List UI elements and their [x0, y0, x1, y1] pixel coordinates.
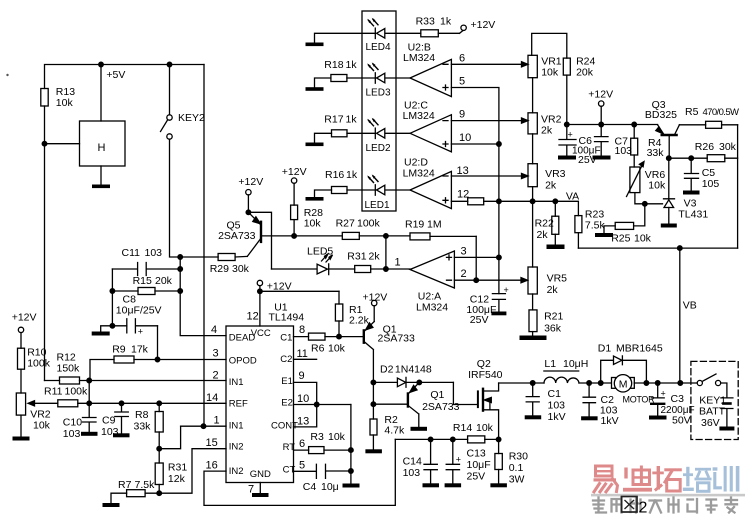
wire OPOD row — [90, 360, 226, 381]
svg-text:10k: 10k — [328, 431, 346, 443]
svg-text:L1: L1 — [544, 358, 556, 370]
svg-text:LED2: LED2 — [366, 143, 391, 154]
wire +5V long vertical to pin1 — [203, 65, 205, 427]
ground — [595, 233, 613, 237]
terminal +12V U1 — [257, 280, 262, 326]
svg-text:30k: 30k — [232, 263, 250, 275]
svg-text:3: 3 — [213, 348, 219, 360]
svg-text:9: 9 — [299, 370, 305, 382]
watermark char yi — [594, 466, 618, 492]
resistor R18 — [331, 75, 347, 82]
svg-text:100k: 100k — [357, 218, 381, 230]
svg-text:REF: REF — [229, 399, 248, 410]
capacitor C9 — [115, 403, 129, 433]
svg-text:IRF540: IRF540 — [468, 369, 503, 381]
svg-text:20k: 20k — [576, 67, 594, 79]
wire H to ground — [100, 166, 102, 185]
svg-text:3: 3 — [461, 246, 467, 258]
wire pin9 E1 — [294, 382, 317, 404]
svg-text:10k: 10k — [648, 180, 666, 192]
svg-text:+12V: +12V — [588, 89, 613, 101]
resistor R3 — [309, 447, 324, 454]
resistor R4 — [631, 125, 638, 168]
resistor R9 — [114, 356, 134, 363]
LED LED4 — [367, 18, 385, 39]
capacitor C2 — [583, 383, 595, 416]
resistor R5 — [706, 121, 738, 128]
op-amp U2:A — [410, 251, 454, 288]
svg-text:+: + — [504, 285, 509, 295]
svg-text:10μH: 10μH — [563, 358, 588, 370]
relay H — [80, 121, 126, 166]
resistor R17 — [332, 130, 348, 137]
svg-text:H: H — [98, 142, 106, 154]
op-amp U2:D — [410, 171, 451, 208]
LED LED5 — [317, 254, 332, 275]
svg-text:10μF: 10μF — [467, 459, 491, 471]
ground — [306, 197, 324, 201]
wire ground branch — [101, 269, 127, 332]
svg-text:R26: R26 — [695, 141, 714, 153]
svg-text:R17: R17 — [324, 114, 343, 126]
svg-text:1kV: 1kV — [548, 411, 566, 423]
ground — [683, 191, 700, 195]
wire pin 12 — [451, 200, 467, 202]
svg-text:105: 105 — [702, 178, 720, 190]
svg-text:C3: C3 — [671, 393, 685, 405]
svg-text:+: + — [661, 389, 666, 399]
svg-text:IN2: IN2 — [229, 442, 244, 453]
wire base row — [294, 234, 388, 239]
svg-text:MBR1645: MBR1645 — [616, 343, 663, 355]
svg-text:2k: 2k — [369, 251, 381, 263]
svg-text:BD325: BD325 — [645, 109, 677, 121]
wire LED3 row — [315, 78, 411, 87]
svg-text:1k: 1k — [440, 16, 452, 28]
svg-text:R27: R27 — [336, 218, 355, 230]
figure label tu2 — [622, 497, 648, 516]
ground — [581, 416, 598, 420]
svg-text:11: 11 — [297, 348, 308, 360]
resistor R33 — [421, 30, 463, 37]
wire — [530, 187, 535, 267]
ground — [252, 493, 269, 497]
svg-text:4: 4 — [211, 324, 217, 336]
svg-text:LM324: LM324 — [416, 302, 448, 314]
svg-text:8: 8 — [299, 324, 305, 336]
watermark char pei — [683, 467, 712, 492]
terminal +12V R28 — [291, 178, 296, 205]
wire R29 row — [178, 255, 247, 260]
wire node link — [87, 381, 92, 406]
svg-text:13: 13 — [297, 416, 309, 428]
resistor R24 — [563, 58, 570, 124]
wire left vertical — [42, 106, 79, 381]
svg-text:RT: RT — [283, 442, 296, 453]
capacitor C1 — [526, 383, 539, 415]
svg-text:TL431: TL431 — [678, 209, 708, 221]
svg-text:C13: C13 — [467, 448, 486, 460]
wire pin 5 — [451, 88, 499, 145]
svg-text:R19: R19 — [405, 219, 424, 231]
resistor R25 — [615, 222, 633, 229]
wire VA row — [533, 199, 579, 216]
wire pin10 E2 — [294, 402, 351, 407]
terminal +12V — [599, 101, 604, 125]
wire IN1 row — [45, 378, 227, 383]
svg-text:D2: D2 — [380, 364, 394, 376]
wire pin13 CONT — [294, 405, 317, 427]
capacitor C10 — [83, 403, 97, 432]
svg-text:1: 1 — [395, 257, 401, 269]
wire pin 3 — [454, 255, 501, 260]
svg-text:33k: 33k — [134, 421, 152, 433]
switch KEY1 — [697, 374, 721, 386]
wire R19 to pin2 — [475, 236, 477, 280]
svg-text:100k: 100k — [65, 386, 89, 398]
svg-text:R30: R30 — [509, 451, 528, 463]
svg-text:M: M — [619, 379, 628, 391]
wire VB vertical — [679, 248, 681, 383]
svg-text:R15: R15 — [133, 275, 152, 287]
watermark separator line — [591, 494, 745, 497]
wire pin1 to R8 junction — [159, 426, 180, 449]
svg-text:R3: R3 — [310, 431, 324, 443]
ground — [593, 156, 611, 160]
wire — [532, 294, 534, 310]
op-amp U2:B — [410, 59, 451, 96]
svg-text:25V: 25V — [467, 471, 486, 483]
svg-text:2k: 2k — [547, 284, 559, 296]
watermark small text row — [593, 498, 737, 513]
potentiometer VR2 — [528, 113, 537, 134]
svg-text:33k: 33k — [647, 147, 665, 159]
wire to motor — [579, 381, 612, 386]
svg-text:+12V: +12V — [238, 176, 263, 188]
svg-text:103: 103 — [145, 247, 163, 259]
svg-text:+5V: +5V — [106, 69, 125, 81]
shunt regulator V3 TL431 — [664, 158, 675, 223]
svg-text:10k: 10k — [328, 343, 346, 355]
terminal +12V Q5 — [246, 190, 251, 215]
potentiometer VR3 — [528, 164, 537, 187]
wire DEAD net — [178, 257, 226, 336]
ground — [103, 503, 120, 507]
resistor R12 — [60, 377, 80, 384]
svg-text:1k: 1k — [346, 169, 358, 181]
svg-text:R18: R18 — [324, 59, 343, 71]
svg-text:16: 16 — [206, 460, 218, 472]
svg-text:R33: R33 — [416, 16, 435, 28]
svg-text:36k: 36k — [544, 323, 562, 335]
resistor R29 — [218, 254, 235, 261]
terminal +12V Q1 — [372, 300, 377, 321]
ground — [661, 224, 677, 228]
svg-text:R31: R31 — [347, 251, 366, 263]
resistor R6 — [309, 333, 326, 340]
svg-text:C4: C4 — [303, 481, 317, 493]
svg-text:R6: R6 — [311, 343, 325, 355]
capacitor C14 — [424, 439, 437, 483]
svg-text:103: 103 — [63, 428, 81, 440]
transistor Q4 — [408, 382, 419, 426]
svg-text:LED3: LED3 — [366, 88, 391, 99]
wire dot link — [385, 236, 387, 269]
wire R7 row — [111, 493, 159, 503]
svg-text:10k: 10k — [541, 67, 559, 79]
resistor R14 — [468, 436, 485, 443]
ground — [113, 433, 130, 437]
LED LED1 — [367, 174, 385, 195]
svg-text:+: + — [138, 327, 143, 337]
wire feedback line — [578, 246, 737, 251]
wire — [532, 134, 534, 164]
resistor R31b — [155, 449, 163, 496]
wire pin 6 — [451, 62, 528, 67]
svg-text:2k: 2k — [545, 180, 557, 192]
svg-text:IN1: IN1 — [229, 377, 244, 388]
svg-text:R31: R31 — [168, 462, 187, 474]
wire pin11 stub — [294, 358, 317, 360]
svg-text:6: 6 — [299, 438, 305, 450]
resistor R31 — [355, 266, 371, 273]
ground — [306, 43, 324, 47]
svg-text:C1: C1 — [280, 332, 292, 343]
resistor R16 — [332, 187, 348, 194]
wire LED5 row — [272, 267, 411, 272]
svg-text:VB: VB — [683, 300, 697, 312]
capacitor C4 — [294, 464, 351, 478]
wire R14 rail — [395, 437, 501, 442]
wire +12V rail right — [565, 122, 658, 127]
wire pin 2 — [454, 278, 527, 283]
svg-text:LED5: LED5 — [307, 246, 333, 258]
svg-text:150k: 150k — [57, 363, 81, 375]
svg-text:15: 15 — [206, 437, 218, 449]
svg-text:R25: R25 — [611, 233, 630, 245]
wire pin15 row — [159, 449, 226, 494]
svg-text:+: + — [456, 455, 461, 465]
svg-text:9: 9 — [459, 109, 465, 121]
svg-text:MOTOR: MOTOR — [623, 395, 656, 405]
wire pin8 row — [294, 334, 364, 339]
svg-text:KEY2: KEY2 — [178, 112, 205, 124]
wire pin1 row — [181, 424, 226, 429]
svg-text:25V: 25V — [470, 314, 489, 326]
wire Q1 to Q4 base — [371, 382, 407, 406]
svg-text:E2: E2 — [281, 398, 293, 409]
rheostat VR6 — [627, 162, 645, 197]
svg-text:100k: 100k — [27, 358, 51, 370]
svg-text:10μF/25V: 10μF/25V — [116, 305, 162, 317]
svg-text:LM324: LM324 — [403, 52, 435, 64]
svg-text:13: 13 — [457, 165, 469, 177]
svg-text:10k: 10k — [634, 233, 652, 245]
svg-text:CT: CT — [283, 464, 296, 475]
transistor Q5 — [247, 212, 296, 256]
wire ref to V3 — [645, 203, 663, 205]
wire VR6 bottom — [635, 193, 647, 207]
svg-text:D1: D1 — [598, 343, 612, 355]
svg-text:R11: R11 — [44, 386, 63, 398]
wire to gate — [453, 382, 477, 404]
svg-text:+12V: +12V — [12, 312, 37, 324]
resistor R15 — [112, 288, 180, 295]
ground — [92, 185, 110, 189]
LED box — [362, 11, 396, 211]
capacitor C11 — [112, 263, 180, 276]
svg-text:5: 5 — [459, 76, 465, 88]
resistor R28 — [291, 205, 298, 236]
svg-text:2: 2 — [461, 268, 467, 280]
capacitor C7 — [595, 125, 609, 156]
svg-text:IN2: IN2 — [229, 466, 244, 477]
capacitor C6 — [559, 125, 576, 156]
svg-text:2SA733: 2SA733 — [218, 230, 256, 242]
resistor R2 — [370, 404, 377, 449]
ground — [343, 484, 360, 488]
capacitor C12 — [492, 285, 508, 312]
svg-text:10μ: 10μ — [321, 481, 339, 493]
ground — [490, 483, 507, 487]
wire pin 9 — [451, 118, 528, 123]
svg-text:R14: R14 — [453, 422, 472, 434]
svg-text:LM324: LM324 — [403, 110, 435, 122]
svg-text:R5: R5 — [685, 106, 699, 118]
svg-text:2SA733: 2SA733 — [378, 333, 416, 345]
svg-text:C1: C1 — [548, 388, 562, 400]
svg-text:10: 10 — [297, 393, 309, 405]
svg-text:VA: VA — [566, 191, 579, 203]
svg-text:7.5k: 7.5k — [585, 220, 606, 232]
svg-text:103: 103 — [615, 145, 633, 157]
wire pin16 and bottom rail — [204, 439, 395, 505]
svg-text:C10: C10 — [63, 417, 82, 429]
svg-text:10k: 10k — [304, 218, 322, 230]
svg-text:103: 103 — [548, 400, 566, 412]
resistor R11 — [58, 400, 78, 407]
wire C8 to OPOD — [155, 326, 160, 362]
svg-text:VR3: VR3 — [545, 168, 566, 180]
ground — [306, 143, 324, 147]
wire — [532, 78, 534, 113]
battery BATT — [721, 383, 733, 427]
wire REF row — [28, 401, 226, 406]
transistor Q1 — [364, 322, 376, 385]
wire LED1 row — [315, 190, 411, 197]
ground — [306, 87, 324, 91]
wire U1 GND pin7 — [259, 483, 261, 494]
ground — [719, 427, 734, 431]
svg-text:5: 5 — [299, 460, 305, 472]
ground — [445, 483, 462, 487]
svg-text:C2: C2 — [280, 354, 292, 365]
wire pin 13 — [451, 173, 528, 178]
wire drain line — [499, 381, 544, 386]
svg-text:4.7k: 4.7k — [384, 425, 405, 437]
wire pin 10 — [451, 142, 501, 147]
diode D1 — [601, 356, 647, 383]
svg-text:LED1: LED1 — [365, 200, 390, 211]
svg-text:C9: C9 — [102, 415, 116, 427]
ground — [81, 432, 98, 436]
resistor R22 — [552, 201, 559, 244]
resistor R27 — [342, 232, 359, 239]
wire VCC to R1 — [260, 290, 339, 292]
capacitor C8 — [127, 319, 158, 337]
svg-text:1k: 1k — [346, 114, 358, 126]
motor M — [612, 375, 635, 392]
ground — [92, 332, 110, 336]
svg-text:R29: R29 — [210, 263, 229, 275]
svg-text:1N4148: 1N4148 — [395, 364, 432, 376]
svg-text:VR5: VR5 — [547, 273, 568, 285]
svg-text:0.1: 0.1 — [509, 462, 524, 474]
MOSFET Q2 — [478, 383, 499, 439]
svg-text:50V: 50V — [672, 415, 691, 427]
svg-text:TL1494: TL1494 — [269, 312, 305, 324]
capacitor C13 — [446, 439, 461, 483]
svg-text:R9: R9 — [112, 344, 126, 356]
wire +5V rail — [45, 62, 205, 121]
svg-text:R8: R8 — [135, 409, 149, 421]
svg-text:2SA733: 2SA733 — [422, 401, 460, 413]
resistor R23 — [575, 216, 582, 249]
svg-text:C11: C11 — [122, 247, 141, 259]
wire LED2 row — [315, 133, 411, 142]
svg-text:BATT: BATT — [699, 406, 726, 418]
watermark char xun — [713, 466, 740, 492]
diode D2 — [373, 377, 453, 387]
svg-text:LED4: LED4 — [366, 42, 391, 53]
ground — [423, 483, 440, 487]
wire collector to R5 — [679, 124, 705, 126]
svg-text:1kV: 1kV — [601, 415, 619, 427]
svg-text:3W: 3W — [509, 474, 525, 486]
watermark char tuo — [652, 466, 682, 491]
svg-text:1k: 1k — [346, 59, 358, 71]
svg-text:36V: 36V — [701, 417, 720, 429]
svg-text:+12V: +12V — [363, 292, 388, 304]
svg-text:R7: R7 — [118, 479, 132, 491]
ground — [491, 312, 506, 316]
svg-text:+12V: +12V — [471, 19, 496, 31]
svg-text:R22: R22 — [535, 218, 554, 230]
wire LED4 row — [315, 33, 421, 42]
resistor R8 — [155, 403, 163, 451]
svg-text:R21: R21 — [544, 311, 563, 323]
wire right vertical — [737, 125, 739, 248]
svg-text:IN1: IN1 — [229, 421, 244, 432]
wire VA vertical — [498, 144, 500, 294]
ground — [547, 245, 565, 250]
wire top chain — [532, 33, 567, 58]
wire ground vertical — [349, 405, 354, 484]
svg-text:DEAD: DEAD — [229, 333, 256, 344]
resistor R19 — [386, 233, 476, 240]
resistor R30 — [495, 439, 502, 483]
svg-text:20k: 20k — [155, 275, 173, 287]
ground — [365, 449, 382, 453]
resistor pin12 series — [468, 198, 484, 205]
IC U1 TL1494 — [226, 326, 294, 483]
svg-text:1M: 1M — [427, 219, 442, 231]
speck — [6, 74, 8, 76]
svg-text:+12V: +12V — [282, 166, 307, 178]
transistor Q3 — [656, 125, 680, 161]
wire RT row — [294, 449, 351, 451]
wire KEY2 down — [170, 139, 181, 257]
